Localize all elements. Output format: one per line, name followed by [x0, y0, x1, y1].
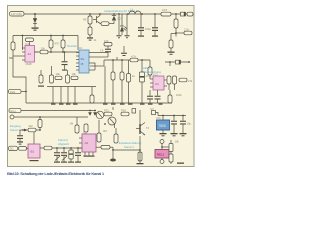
svg-text:St1: St1 [10, 147, 14, 151]
svg-text:470µ: 470µ [146, 74, 152, 78]
node [50, 51, 52, 53]
svg-text:Kanal 1: Kanal 1 [124, 145, 134, 149]
relay IC7 [155, 150, 169, 159]
wire [162, 116, 164, 121]
resistor R19 [9, 89, 27, 94]
svg-text:Überwachung: Überwachung [143, 70, 161, 74]
node [62, 35, 64, 37]
wire [89, 14, 91, 16]
resistor R43 [120, 60, 124, 103]
resistor R42 [111, 60, 115, 103]
resistor R32 [104, 108, 112, 115]
resistor R7 [176, 27, 192, 34]
diode D2 [112, 14, 116, 21]
label Akku-Ueberwachung [143, 66, 161, 74]
node [70, 147, 72, 149]
label blue lower [119, 141, 142, 149]
transistor Q4 [96, 111, 104, 119]
ground [152, 36, 158, 37]
wire [34, 14, 36, 19]
wire [139, 136, 141, 152]
wire lower bus [40, 147, 90, 149]
schematic panel frame [8, 6, 195, 167]
terminal [10, 115, 88, 119]
svg-text:Netzteil: Netzteil [67, 44, 77, 48]
svg-text:C1: C1 [155, 82, 159, 86]
LED D3 [120, 14, 127, 35]
node [141, 59, 143, 61]
resistor R15 [167, 76, 171, 84]
wire [126, 14, 128, 35]
transistor Q1 [93, 16, 100, 24]
svg-text:Eing.: Eing. [11, 109, 17, 113]
svg-text:100µ: 100µ [145, 27, 151, 31]
diode D6 [132, 109, 136, 114]
ground tick [140, 104, 145, 105]
wire [118, 14, 120, 35]
svg-text:0,15: 0,15 [162, 8, 168, 12]
resistor R13 [127, 60, 131, 103]
resistor R18 [168, 90, 172, 103]
wire [162, 140, 171, 147]
resistor R16 [173, 76, 177, 84]
resistor R13b [61, 36, 65, 53]
capacitor C6 [105, 44, 111, 57]
wire [154, 14, 156, 27]
resistor R6 [174, 14, 178, 33]
svg-text:2,2k: 2,2k [184, 27, 190, 31]
node [39, 116, 41, 118]
capacitor C14 [180, 116, 191, 134]
resistor R17 [179, 78, 193, 83]
node [118, 13, 120, 15]
resistor R1 [88, 16, 92, 24]
capacitor C7 electrolytic [140, 60, 145, 103]
optocoupler IC1 [22, 42, 38, 66]
ground tick [66, 104, 71, 105]
node [113, 13, 115, 15]
node [175, 32, 177, 34]
wire [168, 84, 170, 90]
wire [174, 84, 176, 90]
node [169, 61, 171, 63]
ground [32, 27, 39, 30]
svg-text:10µ: 10µ [187, 122, 192, 126]
ground [68, 162, 74, 163]
resistor R22 [55, 76, 62, 79]
node [139, 149, 141, 151]
ground [160, 133, 167, 136]
capacitor C3 [138, 27, 151, 36]
capacitor C9 [54, 148, 60, 162]
wire [51, 66, 53, 75]
svg-text:100n: 100n [176, 93, 182, 97]
wire [165, 61, 190, 63]
resistor R8 [26, 38, 34, 47]
capacitor C16 [155, 90, 161, 103]
diode D9 [93, 113, 96, 116]
ground tick [128, 104, 133, 105]
arrow [24, 129, 28, 132]
wire [162, 130, 164, 133]
resistor R41 [130, 55, 138, 62]
ground [168, 52, 175, 55]
diode D8 [88, 113, 91, 116]
wire left bus [13, 35, 78, 37]
resistor R30 [75, 117, 79, 133]
resistor R26 [28, 128, 40, 132]
ground [110, 159, 116, 162]
svg-text:10k: 10k [72, 72, 77, 76]
capacitor C12 [75, 148, 81, 162]
wire [175, 33, 177, 37]
resistor R5 [187, 12, 193, 16]
wire [22, 36, 24, 51]
resistor R29 [44, 146, 52, 150]
ground [75, 162, 81, 163]
resistor R3 [100, 21, 114, 25]
svg-text:Ref1: Ref1 [10, 90, 16, 94]
label Kanal 2 [58, 138, 69, 146]
svg-text:10k: 10k [175, 140, 180, 144]
svg-text:D2: D2 [118, 17, 122, 21]
wire right top [158, 115, 186, 117]
wire [67, 87, 69, 104]
IC2 switching regulator [76, 46, 92, 73]
ground [138, 36, 144, 37]
transistor Q6 [136, 123, 145, 136]
node [121, 59, 123, 61]
ground [87, 35, 97, 42]
node [50, 35, 52, 37]
ground tick [51, 104, 56, 105]
wire [169, 62, 171, 66]
wire [92, 63, 95, 66]
wire low mid bus [90, 65, 104, 67]
svg-text:R32: R32 [104, 108, 109, 112]
svg-text:1M: 1M [70, 122, 74, 126]
capacitor C18 [169, 152, 173, 165]
node [56, 147, 58, 149]
resistor R25 [90, 87, 94, 103]
ground [137, 163, 144, 164]
wire [92, 52, 108, 54]
capacitor C1 [117, 35, 122, 38]
resistor R40 [148, 67, 152, 79]
diode D4 [181, 12, 186, 16]
node [94, 110, 96, 112]
wire [139, 110, 141, 124]
node [162, 115, 164, 117]
resistor R2 [88, 27, 92, 35]
transistor Q5 [108, 117, 116, 128]
ground tick [59, 104, 64, 105]
wire [113, 149, 140, 151]
node [99, 13, 101, 15]
svg-text:4k7: 4k7 [103, 129, 108, 133]
terminal out- [160, 158, 164, 164]
capacitor C10 [61, 148, 67, 162]
capacitor C11 electrolytic [69, 148, 73, 162]
node [112, 59, 114, 61]
wire [140, 14, 142, 27]
voltage regulator IC6 [157, 120, 170, 130]
ground [61, 162, 67, 163]
ground tick [120, 104, 125, 105]
resistor R35 [96, 145, 114, 158]
capacitor C15 [121, 46, 127, 56]
node [89, 110, 91, 112]
svg-text:C6: C6 [100, 49, 104, 53]
wire [116, 57, 118, 60]
node [63, 147, 65, 149]
ground [54, 162, 60, 163]
zener diode D1 [33, 19, 37, 28]
svg-text:14V 0,8A: 14V 0,8A [11, 12, 22, 16]
node [188, 61, 190, 63]
wire mid bus2 [47, 86, 96, 88]
resistor R37 fuse [138, 152, 142, 163]
resistor R14 [169, 34, 176, 52]
svg-text:47k: 47k [188, 79, 193, 83]
svg-text:IC2: IC2 [78, 46, 83, 50]
wire [74, 87, 76, 104]
svg-text:470: 470 [55, 42, 60, 46]
wire mid bus3 [104, 59, 150, 61]
ground tick [148, 104, 153, 105]
ground [171, 133, 178, 136]
comparator IC3 [150, 72, 167, 90]
svg-text:A1: A1 [28, 52, 32, 56]
node [22, 129, 24, 131]
node [173, 115, 175, 117]
node [39, 129, 41, 131]
bus row components: resistor R20 [50, 75, 54, 83]
node [182, 115, 184, 117]
svg-text:4N25: 4N25 [26, 62, 33, 66]
node [62, 51, 64, 53]
wire [99, 14, 101, 16]
diode D5 [176, 60, 181, 64]
resistor R36 [121, 109, 129, 116]
wire [67, 70, 69, 75]
wire [52, 87, 54, 104]
diode D7 [151, 107, 159, 116]
svg-text:B1: B1 [31, 150, 35, 154]
resistor R27 [38, 117, 42, 130]
svg-text:10k: 10k [56, 72, 61, 76]
wire [89, 24, 91, 27]
ground tick [159, 104, 163, 105]
node [127, 13, 129, 15]
capacitor C19 [17, 130, 23, 145]
capacitor C8 [147, 90, 153, 103]
wire top supply bus [24, 13, 193, 15]
ground [177, 163, 184, 164]
wire [149, 60, 151, 67]
svg-text:Kanal 1: Kanal 1 [10, 128, 20, 132]
node [64, 51, 66, 53]
wire [103, 60, 105, 66]
wire [77, 36, 79, 51]
node [154, 13, 156, 15]
capacitor C13 [171, 116, 177, 134]
node [104, 123, 106, 125]
wire left drop [13, 58, 26, 103]
capacitor C2 [125, 35, 130, 38]
wire [60, 87, 62, 104]
resistor R9 [11, 36, 15, 59]
svg-text:10k: 10k [41, 46, 46, 50]
resistor R10 [40, 46, 48, 54]
ground tick [73, 104, 78, 105]
IC5 [79, 131, 96, 157]
resistor R24 [38, 70, 44, 87]
wire ground bus [26, 102, 172, 104]
resistor R4 [161, 8, 171, 16]
capacitor C17 [169, 144, 173, 152]
label input [9, 108, 96, 113]
node [77, 147, 79, 149]
wire [92, 56, 108, 58]
svg-text:IC6: IC6 [157, 116, 162, 120]
ground [180, 133, 187, 136]
terminal out+ [160, 140, 164, 150]
wire [33, 132, 35, 144]
svg-text:A2: A2 [85, 141, 89, 145]
node [25, 91, 27, 93]
svg-text:2k2: 2k2 [29, 124, 34, 128]
wire [104, 66, 106, 103]
resistor R28 [9, 146, 29, 151]
resistor R12 [49, 36, 53, 53]
inductor L1 [129, 8, 141, 15]
svg-text:R5: R5 [83, 18, 87, 22]
resistor R23 [71, 76, 78, 79]
ground tick [111, 104, 116, 105]
resistor R44 [104, 39, 112, 46]
wire [13, 55, 22, 57]
capacitor C5 [62, 52, 68, 71]
opto IC4 [28, 144, 40, 161]
wire mid bus [48, 51, 79, 53]
page background [0, 0, 200, 179]
svg-text:7805: 7805 [159, 124, 166, 128]
resistor R31 [84, 124, 88, 132]
wire [112, 107, 114, 110]
svg-text:Bild 22: Schaltung der Lade-/E: Bild 22: Schaltung der Lade-/Entlade-Ele… [7, 171, 105, 176]
wire [9, 57, 13, 59]
capacitor C4 [152, 27, 158, 35]
node [22, 35, 24, 37]
svg-text:REL1: REL1 [157, 153, 165, 157]
node A [34, 13, 36, 15]
label Eingang Kanal 1 [10, 124, 21, 132]
resistor R21 [66, 75, 70, 83]
svg-text:D7: D7 [151, 107, 155, 111]
svg-text:SG: SG [81, 57, 85, 61]
ground tick [103, 104, 108, 105]
net label 14V input [10, 12, 25, 16]
node [141, 13, 143, 15]
svg-text:Abgleich: Abgleich [58, 142, 69, 146]
node [89, 13, 91, 15]
node [175, 13, 177, 15]
wire [92, 69, 95, 71]
resistor R33 [97, 120, 101, 142]
wire [35, 51, 41, 53]
resistor R34 [114, 128, 118, 143]
